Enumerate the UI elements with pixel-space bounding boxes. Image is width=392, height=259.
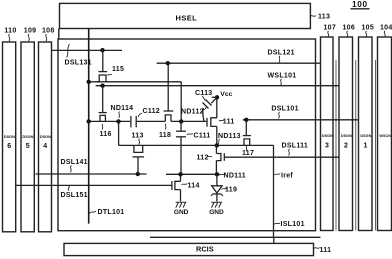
svg-text:113: 113 bbox=[132, 133, 144, 140]
svg-text:106: 106 bbox=[343, 25, 356, 32]
svg-text:GND: GND bbox=[174, 209, 189, 216]
svg-text:1: 1 bbox=[364, 143, 368, 150]
svg-text:DSL111: DSL111 bbox=[282, 143, 309, 150]
svg-text:104: 104 bbox=[380, 25, 392, 32]
svg-text:DSL131: DSL131 bbox=[65, 59, 92, 66]
svg-text:114: 114 bbox=[188, 183, 200, 190]
svg-text:DSL121: DSL121 bbox=[268, 50, 295, 57]
svg-text:4: 4 bbox=[43, 143, 47, 150]
svg-text:119: 119 bbox=[225, 187, 237, 194]
svg-text:DSGN: DSGN bbox=[4, 135, 15, 139]
svg-text:107: 107 bbox=[324, 25, 337, 32]
svg-text:118: 118 bbox=[159, 132, 171, 139]
svg-text:108: 108 bbox=[42, 27, 55, 34]
svg-text:DSGN: DSGN bbox=[22, 135, 33, 139]
svg-text:WSCN: WSCN bbox=[379, 134, 391, 138]
svg-text:GND: GND bbox=[209, 209, 224, 216]
svg-text:100: 100 bbox=[352, 0, 368, 9]
svg-text:Iref: Iref bbox=[281, 173, 293, 180]
svg-text:115: 115 bbox=[112, 66, 124, 73]
svg-text:111: 111 bbox=[320, 247, 332, 254]
svg-text:2: 2 bbox=[344, 143, 348, 150]
svg-text:C113: C113 bbox=[195, 90, 212, 97]
svg-text:DSL141: DSL141 bbox=[61, 159, 88, 166]
svg-text:Vcc: Vcc bbox=[220, 91, 232, 98]
svg-text:ND112: ND112 bbox=[181, 109, 204, 116]
svg-text:DSGN: DSGN bbox=[341, 134, 352, 138]
svg-text:116: 116 bbox=[100, 131, 112, 138]
svg-text:5: 5 bbox=[26, 143, 30, 150]
svg-text:109: 109 bbox=[24, 27, 37, 34]
svg-text:110: 110 bbox=[4, 27, 16, 34]
svg-text:DTL101: DTL101 bbox=[98, 209, 125, 216]
svg-text:DSL151: DSL151 bbox=[61, 192, 88, 199]
svg-text:ND111: ND111 bbox=[224, 173, 246, 180]
svg-text:111: 111 bbox=[223, 119, 235, 126]
svg-text:113: 113 bbox=[318, 14, 330, 21]
svg-text:117: 117 bbox=[242, 150, 254, 157]
svg-text:ISL101: ISL101 bbox=[281, 221, 305, 228]
svg-text:112: 112 bbox=[197, 155, 209, 162]
svg-text:ND113: ND113 bbox=[218, 133, 241, 140]
svg-text:DSGN: DSGN bbox=[360, 134, 371, 138]
svg-text:3: 3 bbox=[325, 143, 329, 150]
svg-text:DSGN: DSGN bbox=[40, 135, 51, 139]
svg-text:HSEL: HSEL bbox=[176, 13, 198, 22]
svg-text:C112: C112 bbox=[143, 108, 160, 115]
svg-text:DSGN: DSGN bbox=[322, 134, 333, 138]
svg-text:ND114: ND114 bbox=[111, 105, 134, 112]
svg-text:DSL101: DSL101 bbox=[271, 106, 298, 113]
svg-text:WSL101: WSL101 bbox=[268, 73, 297, 80]
svg-text:6: 6 bbox=[7, 143, 11, 150]
svg-text:RCIS: RCIS bbox=[196, 245, 214, 254]
svg-text:C111: C111 bbox=[194, 133, 211, 140]
svg-text:105: 105 bbox=[362, 25, 375, 32]
